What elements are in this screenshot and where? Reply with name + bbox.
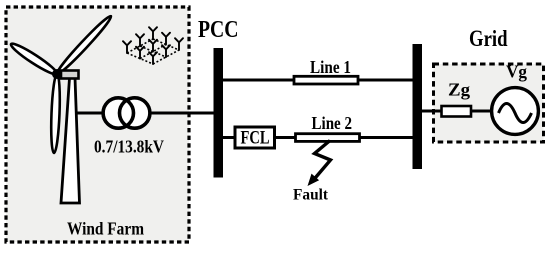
svg-text:Wind Farm: Wind Farm [67,219,144,239]
svg-text:0.7/13.8kV: 0.7/13.8kV [94,137,164,157]
svg-text:Zg: Zg [448,80,470,100]
svg-text:Line 1: Line 1 [310,57,351,77]
svg-text:Fault: Fault [293,187,329,204]
svg-text:Vg: Vg [506,62,527,82]
svg-text:Line 2: Line 2 [312,113,353,133]
svg-text:PCC: PCC [198,17,239,43]
svg-text:FCL: FCL [241,129,270,149]
svg-text:Grid: Grid [469,26,508,51]
